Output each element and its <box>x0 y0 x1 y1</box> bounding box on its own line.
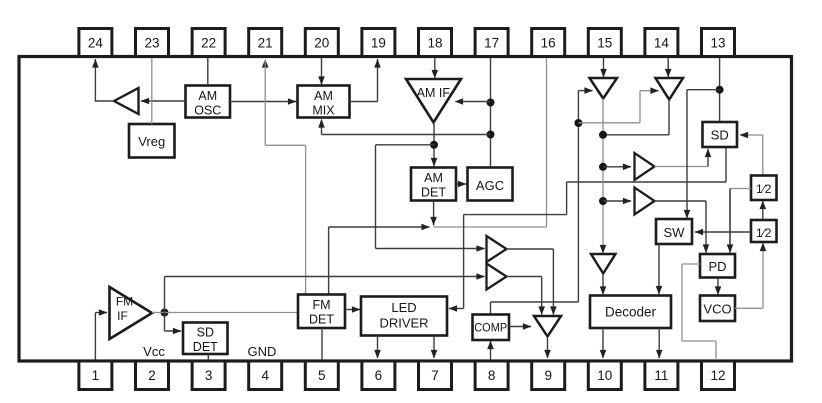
svg-text:VCO: VCO <box>703 302 731 317</box>
wire SD output long route to LED driver <box>449 147 727 312</box>
buffer B1 (AM audio) <box>487 236 507 262</box>
wire pin 18 to AM IF <box>432 58 439 79</box>
svg-text:AM: AM <box>198 89 217 103</box>
wire divider lower to divider upper <box>760 201 767 221</box>
pin 3 <box>192 361 225 390</box>
wire FM DET to LED driver <box>345 306 361 313</box>
box SD <box>703 122 738 147</box>
box LED DRIVER <box>361 297 447 336</box>
box COMP <box>473 315 510 341</box>
pin 1 <box>79 361 112 390</box>
buffer mute FM (triangle down, pin 14) <box>656 78 684 100</box>
buffer decoder input (triangle down) <box>591 254 616 274</box>
svg-text:FM: FM <box>312 298 330 312</box>
svg-text:6: 6 <box>375 368 383 383</box>
pin 18 <box>419 29 452 57</box>
wire bus to buffer C1 <box>603 164 632 171</box>
wire pin 21 to FM DET (via left route) <box>262 59 306 295</box>
box divider 1/2 upper <box>751 176 777 201</box>
node junction bus mid2 <box>599 197 607 205</box>
pin 21 <box>249 29 282 57</box>
wire mute FM output to bus <box>603 99 669 135</box>
wire PD loop filter to pin 12 <box>682 264 716 360</box>
wire SD DET to pin 3 <box>207 354 209 360</box>
pin 16 <box>532 29 565 57</box>
wire AM DET to AGC <box>456 181 467 188</box>
svg-text:18: 18 <box>427 36 442 51</box>
svg-text:8: 8 <box>488 368 496 383</box>
svg-text:AGC: AGC <box>476 178 504 193</box>
node junction FM IF output <box>161 309 169 317</box>
pin 24 <box>79 29 112 57</box>
svg-text:15: 15 <box>597 36 612 51</box>
svg-text:DET: DET <box>421 186 446 200</box>
node junction pin17/AM MIX feedback <box>487 131 495 139</box>
wire AM DET output down <box>430 201 437 226</box>
wire AM IF output branch to audio switch <box>376 145 486 252</box>
wire VCO to divider lower <box>735 243 766 309</box>
wire feedback to AM MIX bottom <box>318 119 490 135</box>
IC body outline <box>19 57 792 362</box>
pin 2 <box>136 361 169 390</box>
svg-text:4: 4 <box>261 368 269 383</box>
box divider 1/2 lower <box>751 220 777 242</box>
pin 23 <box>136 29 169 57</box>
svg-text:17: 17 <box>484 36 499 51</box>
wire FM DET output up to detector node <box>329 224 430 295</box>
svg-text:SW: SW <box>664 225 686 240</box>
pin 17 <box>475 29 508 57</box>
node junction pin17/AM IF feedback <box>487 99 495 107</box>
node junction pin 13 <box>716 86 724 94</box>
svg-text:10: 10 <box>597 368 612 383</box>
wire AM IF output to AM DET <box>431 122 438 167</box>
buffer amp A1 (AM osc buffer) <box>114 88 139 114</box>
pin 11 <box>645 361 678 390</box>
wire AM OSC output to amp A1 <box>141 98 186 105</box>
pin 19 <box>362 29 395 57</box>
svg-text:Vreg: Vreg <box>138 134 165 149</box>
svg-text:DET: DET <box>193 340 218 354</box>
pin 12 <box>702 361 735 390</box>
box AGC <box>468 168 513 201</box>
wire pin 1 to FM IF <box>95 309 107 359</box>
wire FM IF output to B2 buffer <box>165 273 486 312</box>
wire LED driver to pin 7 <box>431 336 438 359</box>
wire pin 22 to AM OSC <box>207 58 209 86</box>
pin 9 <box>532 361 565 390</box>
svg-text:24: 24 <box>88 36 104 51</box>
buffer C2 (to PD) <box>635 188 655 215</box>
box AM MIX <box>298 86 350 118</box>
svg-text:16: 16 <box>541 36 556 51</box>
svg-text:3: 3 <box>205 368 213 383</box>
label Vcc <box>143 344 165 359</box>
svg-text:MIX: MIX <box>312 104 335 118</box>
svg-text:DET: DET <box>309 313 334 327</box>
label GND <box>248 344 277 359</box>
wire FM IF output to FM DET <box>152 312 298 314</box>
box PD <box>700 254 735 278</box>
box AM OSC <box>186 86 231 118</box>
wire bus to buffer C2 <box>603 198 632 205</box>
wire FM DET to pin 5 <box>321 328 323 360</box>
box SW <box>656 219 692 244</box>
svg-text:SD: SD <box>197 326 214 340</box>
svg-text:21: 21 <box>258 36 273 51</box>
pin 13 <box>702 29 735 57</box>
svg-text:12: 12 <box>710 368 725 383</box>
wire divider upper to PD <box>727 189 751 254</box>
buffer mute switch (triangle down) <box>534 316 561 337</box>
svg-text:AM: AM <box>314 89 333 103</box>
pin 20 <box>305 29 338 57</box>
wire SW to Decoder <box>656 244 663 295</box>
wire signal bus vertical <box>600 99 607 254</box>
box Vreg <box>129 124 175 158</box>
svg-text:SD: SD <box>711 128 729 143</box>
wire detector node to pin 16 <box>434 58 547 227</box>
pin 7 <box>419 361 452 390</box>
svg-text:1: 1 <box>92 368 100 383</box>
wire B1 output to mute switch <box>507 249 557 315</box>
wire pin 8 to COMP <box>487 341 494 360</box>
svg-text:23: 23 <box>144 36 159 51</box>
wire PD to VCO <box>715 278 722 296</box>
pin 8 <box>475 361 508 390</box>
wire buffer C2 output to PD <box>655 201 710 253</box>
box AM DET <box>411 168 456 201</box>
svg-text:IF: IF <box>117 309 128 323</box>
wire COMP net to FM mute buffer input <box>578 87 659 122</box>
svg-text:PD: PD <box>708 259 726 274</box>
svg-text:2: 2 <box>148 368 156 383</box>
wire FM IF output to SD DET <box>165 313 182 335</box>
wire LED driver to pin 6 <box>374 336 381 359</box>
wire pin 23 to Vreg <box>151 58 153 124</box>
box VCO <box>700 296 735 322</box>
wire divider lower to SW <box>695 229 752 236</box>
wire COMP to mute switch <box>509 323 532 330</box>
svg-text:22: 22 <box>201 36 216 51</box>
node junction bus mid1 <box>599 163 607 171</box>
svg-text:19: 19 <box>371 36 386 51</box>
svg-text:5: 5 <box>318 368 326 383</box>
svg-text:1⁄2: 1⁄2 <box>756 226 772 240</box>
wire amp A1 output to pin 24 <box>92 59 114 102</box>
node junction AM IF output <box>430 141 438 149</box>
wire Decoder to pin 10 <box>600 328 607 359</box>
svg-text:Decoder: Decoder <box>605 305 657 320</box>
wire pin 15 to mute buffer <box>600 58 607 78</box>
wire pin 20 to AM MIX <box>318 58 325 85</box>
wire pin 13 node to SW <box>684 90 720 219</box>
svg-text:14: 14 <box>654 36 670 51</box>
svg-text:AM: AM <box>424 171 443 185</box>
pin 6 <box>362 361 395 390</box>
amp AM IF (triangle) <box>406 79 461 123</box>
wire pin 17 to AGC (vertical) <box>490 58 492 168</box>
pin 10 <box>588 361 621 390</box>
buffer C1 (to SD) <box>635 153 655 180</box>
box SD DET <box>183 323 228 355</box>
svg-text:DRIVER: DRIVER <box>379 316 428 331</box>
svg-text:OSC: OSC <box>194 104 221 118</box>
svg-text:GND: GND <box>248 344 277 359</box>
svg-text:Vcc: Vcc <box>143 344 165 359</box>
pin 14 <box>645 29 678 57</box>
amp FM IF (triangle) <box>110 287 153 339</box>
svg-text:13: 13 <box>710 36 725 51</box>
svg-text:11: 11 <box>654 368 668 383</box>
wire divider to SD input <box>740 132 763 176</box>
pin 15 <box>588 29 621 57</box>
box Decoder <box>590 296 671 329</box>
wire pin 14 to mute buffer <box>665 58 672 78</box>
wire AGC feedback to AM IF input <box>455 98 491 105</box>
buffer B2 (FM audio) <box>487 264 507 290</box>
pin 4 <box>249 361 282 390</box>
svg-text:7: 7 <box>431 368 439 383</box>
pin 22 <box>192 29 225 57</box>
svg-text:COMP: COMP <box>474 323 507 335</box>
svg-text:FM: FM <box>116 295 133 309</box>
pin 5 <box>305 361 338 390</box>
svg-text:AM IF: AM IF <box>417 86 451 100</box>
wire COMP output to mute buffers <box>491 87 594 314</box>
wire B2 output to mute switch <box>507 277 546 316</box>
svg-text:9: 9 <box>544 368 552 383</box>
wire Decoder to pin 11 <box>656 328 663 359</box>
node junction bus top <box>599 131 607 139</box>
wire AM OSC to AM MIX <box>230 98 297 105</box>
wire decoder buffer to Decoder <box>600 274 607 296</box>
buffer mute AM (triangle down, pin 15) <box>590 78 618 99</box>
svg-text:LED: LED <box>391 300 416 315</box>
node junction COMP net <box>574 119 582 127</box>
svg-text:1⁄2: 1⁄2 <box>756 182 772 196</box>
wire pin 13 to SD <box>719 58 721 122</box>
box FM DET <box>298 295 345 329</box>
wire AM MIX output to pin 19 <box>350 59 381 102</box>
svg-text:20: 20 <box>314 36 329 51</box>
wire buffer C1 output to SD <box>655 149 712 167</box>
wire mute switch to pin 9 <box>544 337 551 359</box>
